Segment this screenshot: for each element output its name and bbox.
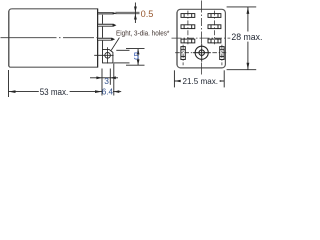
6.4 right outside arrow xyxy=(114,91,121,93)
terminal hole row3 colB xyxy=(208,39,221,43)
body right edge darker xyxy=(97,9,99,67)
blade bottom edge extension xyxy=(114,62,130,64)
6.4 dim line stub between exts xyxy=(102,91,114,93)
terminal blade pin 3 xyxy=(98,38,114,40)
leader line from note to hole xyxy=(111,38,119,51)
mounting hole crosshair horizontal xyxy=(193,52,211,54)
vertical slot right xyxy=(220,47,224,60)
svg-text:53 max.: 53 max. xyxy=(40,87,69,97)
terminal hole row2 colA xyxy=(181,25,195,29)
main horizontal centerline xyxy=(172,37,231,39)
terminal hole row1 colB xyxy=(208,14,221,18)
53 max. left extension line xyxy=(8,70,10,97)
svg-text:21.5 max.: 21.5 max. xyxy=(183,76,219,86)
svg-text:3: 3 xyxy=(104,76,109,86)
base step edge between pins xyxy=(102,15,104,24)
21.5 max. right extension line xyxy=(223,70,225,87)
53 max. right extension line (shared with 3/6.4 dims, blade left edge ext) xyxy=(101,69,103,96)
vertical slot left centerline xyxy=(182,45,184,66)
5 dim extension line lower xyxy=(126,64,145,66)
0.5 arrow upper xyxy=(134,7,137,13)
28 max. bottom extension line xyxy=(227,69,257,71)
3-dia hole in bottom blade xyxy=(105,53,111,59)
base step edge between pin3 and bottom blade xyxy=(102,41,104,50)
6.4 text xyxy=(103,87,113,96)
horizontal centerline of side view xyxy=(1,37,99,39)
vertical slot right centerline xyxy=(221,45,223,66)
5 dim extension line upper xyxy=(126,48,145,50)
svg-text:28 max.: 28 max. xyxy=(231,32,262,42)
main vertical centerline xyxy=(201,1,203,76)
28 max. top extension line xyxy=(227,6,257,8)
svg-text:6.4: 6.4 xyxy=(102,88,114,97)
mounting hole crosshair vertical xyxy=(201,44,203,62)
0.5 arrow lower xyxy=(134,14,137,20)
svg-text:5: 5 xyxy=(134,51,140,62)
bottom view outline xyxy=(177,9,225,68)
terminal blade pin 1 (top) xyxy=(98,13,116,14)
21.5 max. left extension line xyxy=(173,70,175,87)
terminal hole row1 colA xyxy=(181,14,195,18)
0.5 dim extension lines from pin1 tip xyxy=(115,11,139,13)
base step edge between pin2 and pin3 xyxy=(102,27,104,38)
21.5 max. text xyxy=(181,76,220,85)
3 dim extension line right (hole right edge ext) xyxy=(109,69,111,85)
center mounting hole inner xyxy=(199,50,205,56)
28 max. dim line xyxy=(247,7,249,32)
terminal blade pin 2 xyxy=(98,24,116,26)
21.5 max. dim line xyxy=(174,80,224,82)
svg-text:0.5: 0.5 xyxy=(141,9,154,19)
hole vertical crosshair xyxy=(107,47,109,63)
hole horizontal crosshair xyxy=(94,54,113,56)
bottom blade (face-on) with chamfer xyxy=(103,50,113,63)
6.4 dim extension line right (blade right edge ext) xyxy=(113,64,115,96)
blade top edge extension xyxy=(116,49,129,51)
terminal hole row2 colB xyxy=(208,25,221,29)
relay body (side view) xyxy=(9,9,98,67)
bottom view left edge darker xyxy=(176,12,178,65)
vertical slot left xyxy=(181,47,185,60)
body left edge darker xyxy=(8,11,10,66)
center mounting hole outer xyxy=(195,46,208,59)
5 dim vertical line with arrows xyxy=(137,49,139,66)
0.5 dim vertical line xyxy=(134,3,136,24)
column centerline A xyxy=(187,11,189,45)
bottom row horizontal centerline xyxy=(175,52,228,54)
3 dim line with outside arrows xyxy=(90,77,102,79)
svg-text:Eight, 3-dia. holes*: Eight, 3-dia. holes* xyxy=(116,29,170,38)
column centerline B xyxy=(213,11,215,45)
53 max. dim line xyxy=(9,91,103,93)
53 max. text xyxy=(39,87,70,96)
terminal hole row3 colA xyxy=(181,39,195,43)
